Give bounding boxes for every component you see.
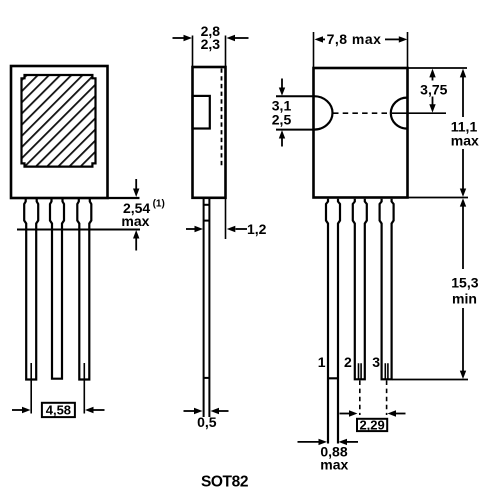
back lead 2 — [353, 199, 367, 379]
dimension 3,1/2,5: up arrow — [279, 130, 285, 146]
left side recess arc — [314, 96, 333, 129]
svg-text:0,5: 0,5 — [197, 414, 217, 430]
svg-text:(1): (1) — [153, 198, 165, 209]
svg-text:max: max — [320, 457, 348, 473]
dimension 11,1 max: lower shaft and arrow — [460, 149, 466, 197]
svg-text:SOT82: SOT82 — [201, 473, 248, 490]
svg-text:2,5: 2,5 — [272, 112, 292, 128]
dimension 2,29: right arrow — [388, 410, 406, 416]
dimension 0,88: right arrow — [339, 439, 359, 445]
back view body outline — [314, 68, 408, 198]
svg-text:3: 3 — [372, 354, 380, 370]
svg-text:2,3: 2,3 — [201, 36, 221, 52]
dashed projection lead 2 — [359, 381, 361, 416]
back view: extension lines for 7,8 max — [313, 32, 315, 67]
dimension 7,8 max: left arrow (pointing left) — [315, 36, 326, 42]
svg-text:1,2: 1,2 — [247, 221, 267, 237]
dimension 4,58: right arrow — [85, 407, 105, 413]
svg-text:3,75: 3,75 — [420, 82, 447, 98]
dimension 2,8/2,3: right arrow — [227, 35, 249, 41]
front lead 1 — [24, 199, 38, 380]
front view body bottom edge extension — [108, 197, 140, 199]
dimension 0,5: right arrow — [211, 408, 229, 414]
dimension 2,29: left arrow — [340, 410, 358, 416]
dimension 4,58: extension line lead1 center — [30, 363, 32, 414]
dimension 1,2: right arrow — [227, 226, 247, 232]
dimension 1,2: left arrow — [186, 226, 203, 232]
svg-text:2,29: 2,29 — [359, 417, 384, 432]
dimension 7,8 max: right arrow (pointing right) — [385, 36, 407, 42]
dimension 0,88: left arrow — [298, 439, 328, 445]
front lead 2 — [50, 199, 64, 379]
lead tip extension line to 15,3 — [393, 379, 469, 381]
hole center dashed line — [333, 112, 390, 114]
left side recess (D shape) top line — [276, 95, 314, 97]
right side recess arc — [391, 98, 407, 129]
dimension 15,3 min: upper arrow and shaft — [460, 198, 466, 269]
back lead 3 tip inner lines — [385, 363, 388, 379]
dimension 3,1/2,5: down arrow — [279, 79, 285, 96]
dimension 3,75: up arrow — [429, 69, 435, 81]
dimension 15,3 min: lower shaft and arrow — [460, 308, 466, 379]
back view top edge extension to right — [408, 67, 468, 69]
seating plane line (2,54 lower reference) — [17, 229, 140, 231]
dimension 4,58: extension line lead3 center — [83, 363, 85, 414]
left side recess (D shape) bottom line — [276, 129, 314, 131]
dimension 3,75: down arrow — [429, 97, 435, 113]
hole center solid line to right — [392, 112, 446, 114]
dimension 4,58: left arrow — [12, 407, 31, 413]
dimension 2,29: value box — [357, 419, 387, 431]
dimension 1,2: extension line from body back — [225, 198, 227, 239]
hatched die pad — [22, 75, 96, 167]
side view lead — [204, 199, 210, 417]
front lead 3 — [77, 199, 91, 380]
svg-text:15,3: 15,3 — [451, 275, 478, 291]
svg-text:max: max — [121, 213, 149, 229]
side view body outline — [193, 67, 226, 198]
back lead 1 (long) — [326, 199, 340, 444]
svg-text:4,58: 4,58 — [46, 403, 71, 418]
dimension 2,54 max: down arrow — [133, 179, 139, 197]
back lead 3 — [380, 199, 394, 379]
dimension 2,54 max: up arrow — [133, 230, 139, 251]
svg-text:min: min — [452, 290, 477, 306]
back lead 2 tip inner lines — [359, 363, 362, 379]
dimension 11,1 max: upper arrow and shaft — [460, 69, 466, 117]
svg-text:1: 1 — [318, 354, 326, 370]
svg-text:7,8 max: 7,8 max — [327, 31, 382, 47]
side view internal dashed line — [221, 69, 223, 166]
dimension 4,58: value box — [42, 403, 75, 417]
front view body outline — [11, 66, 108, 198]
side view: extension lines for 2,8/2,3 — [192, 36, 194, 67]
svg-text:max: max — [451, 133, 479, 149]
back view bottom edge extension to right — [408, 197, 469, 199]
dashed projection lead 3 — [386, 381, 388, 416]
dimension 2,8/2,3: left arrow — [173, 35, 193, 41]
dimension 0,5: left arrow — [184, 408, 203, 414]
svg-text:2: 2 — [344, 354, 352, 370]
side view mounting bump rectangle — [193, 96, 210, 129]
